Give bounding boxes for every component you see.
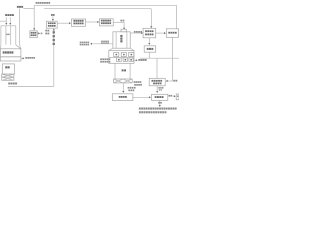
label: feeder text <box>3 51 5 53</box>
component: bag filter box <box>100 19 114 26</box>
label: bin compartment text <box>6 34 8 36</box>
wire: line B right drop to gas washer <box>150 9 152 28</box>
component: vibrating screen <box>2 74 14 80</box>
label: bag filter text <box>101 20 103 22</box>
label: slag box text <box>119 96 121 98</box>
wire: bin feed arrow 1 <box>5 17 7 24</box>
wire: steam arrow into dryer <box>52 16 54 19</box>
wire: washer to desulfurizer arrow <box>156 32 165 34</box>
wire: baghouse outlet to gasifier feed <box>113 21 124 23</box>
label: drain water text <box>158 102 160 104</box>
label: raw coal storage bin text <box>5 14 7 16</box>
label: to bucket elevator text <box>25 57 27 59</box>
label: overflow water text <box>134 81 136 83</box>
component: crusher box <box>2 64 14 74</box>
label: gasifier vertical text <box>120 35 122 37</box>
pipe: bucket elevator riser <box>53 30 55 87</box>
component: rotary dryer box <box>46 21 57 28</box>
component: coal feeder box <box>0 49 21 57</box>
label: first-stage drying exhaust text <box>36 2 38 4</box>
pipe: second header line B <box>44 8 151 10</box>
label: upper stage gas text <box>134 31 136 33</box>
vessel: gasifier jacket section <box>109 51 134 64</box>
wire: bin feed arrow 2 <box>9 17 11 24</box>
label: coal feed text <box>120 20 122 22</box>
wire: line A left drop to charge-coal bunker <box>33 5 35 29</box>
label: bottom note line 2 <box>139 111 141 113</box>
vessel: bin hopper outlet <box>16 45 21 49</box>
wire: drop from gas line to exhauster <box>156 58 158 78</box>
pipe: belt conveyor line <box>8 85 54 87</box>
label: crusher text <box>5 66 7 68</box>
vessel: raw coal storage bin <box>1 25 16 27</box>
wire: bunker outlet arrow <box>37 32 39 34</box>
label: charge coal bunker text <box>31 32 33 34</box>
component: grate cell row2-2 <box>123 58 127 62</box>
label: lower stage gas grate drive text <box>100 58 102 60</box>
wire: ash drop line <box>122 83 124 92</box>
component: grate cell row2-1 <box>117 58 122 62</box>
wire: exhauster drop arrow <box>156 86 158 92</box>
wire: raw coal label connector <box>23 8 34 10</box>
label: cyclone text <box>73 20 75 22</box>
label: circulating water text <box>158 87 160 89</box>
component: gas primary cooler washer box <box>143 28 156 38</box>
label: raw coal text <box>17 6 19 8</box>
wire: feeder discharge arrow <box>21 57 23 59</box>
wire: feed line from left edge <box>0 20 6 22</box>
label: air text <box>173 80 175 82</box>
component: gas exhauster box <box>149 78 165 86</box>
label: dryer text <box>48 22 50 24</box>
label: steam note annotation <box>80 42 82 44</box>
label: elevator side note <box>45 30 47 32</box>
component: grate cell row2-3 <box>129 58 133 62</box>
label: recovered steam text <box>101 41 103 43</box>
vessel: gasifier inner wall left <box>115 32 117 48</box>
wire: blower drop to gas line <box>148 52 150 58</box>
component: gasifier feed stub <box>121 29 126 32</box>
wire: dryer to cyclone arrow <box>57 22 70 24</box>
wire: washer bottom drop <box>148 38 150 44</box>
label: water seal text <box>122 69 124 71</box>
component: desulfurizer box <box>166 29 178 38</box>
vessel: gasifier inner wall right <box>126 32 128 48</box>
label: elevator vertical text <box>53 31 55 33</box>
label: to gas holder text <box>138 59 140 61</box>
label: gasification unit text <box>155 96 157 98</box>
component: cyclone separator box <box>71 19 85 26</box>
wire: gas out arrow <box>173 95 175 97</box>
label: steam text <box>51 14 53 16</box>
label: bottom note line 1 <box>139 108 141 110</box>
wire: desulfurizer long drop <box>172 37 174 81</box>
label: crusher unit text <box>8 83 10 85</box>
label: washer text <box>145 30 147 32</box>
label: desulfurizer text <box>168 32 170 34</box>
pipe: lower gas line to right edge <box>140 57 179 59</box>
wire: line A right drop to desulfurizer <box>176 5 178 28</box>
wire: slag box outlet arrow <box>133 96 150 98</box>
component: grate cell row1-1 <box>114 52 119 56</box>
label: blower text <box>147 48 149 50</box>
pipe: top exhaust header line A <box>34 4 176 6</box>
wire: lower gas outlet arrow <box>134 59 137 61</box>
pipe: steam offtake to left <box>91 43 113 45</box>
component: slag removal box <box>112 94 133 101</box>
vessel: gasifier lower flare right <box>130 48 134 50</box>
component: offpage gas user box <box>176 94 179 100</box>
component: blower box <box>144 46 156 52</box>
label: gas out text <box>169 95 171 97</box>
label: exhauster text <box>152 80 154 82</box>
component: gasification unit box <box>152 94 168 100</box>
wire: cyclone to baghouse arrow <box>86 21 99 23</box>
component: grate cell row1-3 <box>129 52 134 56</box>
vessel: gasifier lower flare left <box>109 48 113 50</box>
vessel: gasifier body outer shell <box>113 32 130 48</box>
label: slag flushing water text <box>128 87 130 89</box>
component: feeder belt tray <box>0 57 21 61</box>
component: grate cell row1-2 <box>121 52 126 56</box>
component: ash pan water seal tray <box>114 79 133 83</box>
component: charge coal bunker box <box>30 31 37 38</box>
wire: raw coal down line into feeder <box>19 9 21 45</box>
wire: drain line <box>159 100 161 105</box>
vessel: gasifier bottom neck <box>114 63 116 79</box>
pipe: upper gas offtake to washer <box>130 32 142 34</box>
